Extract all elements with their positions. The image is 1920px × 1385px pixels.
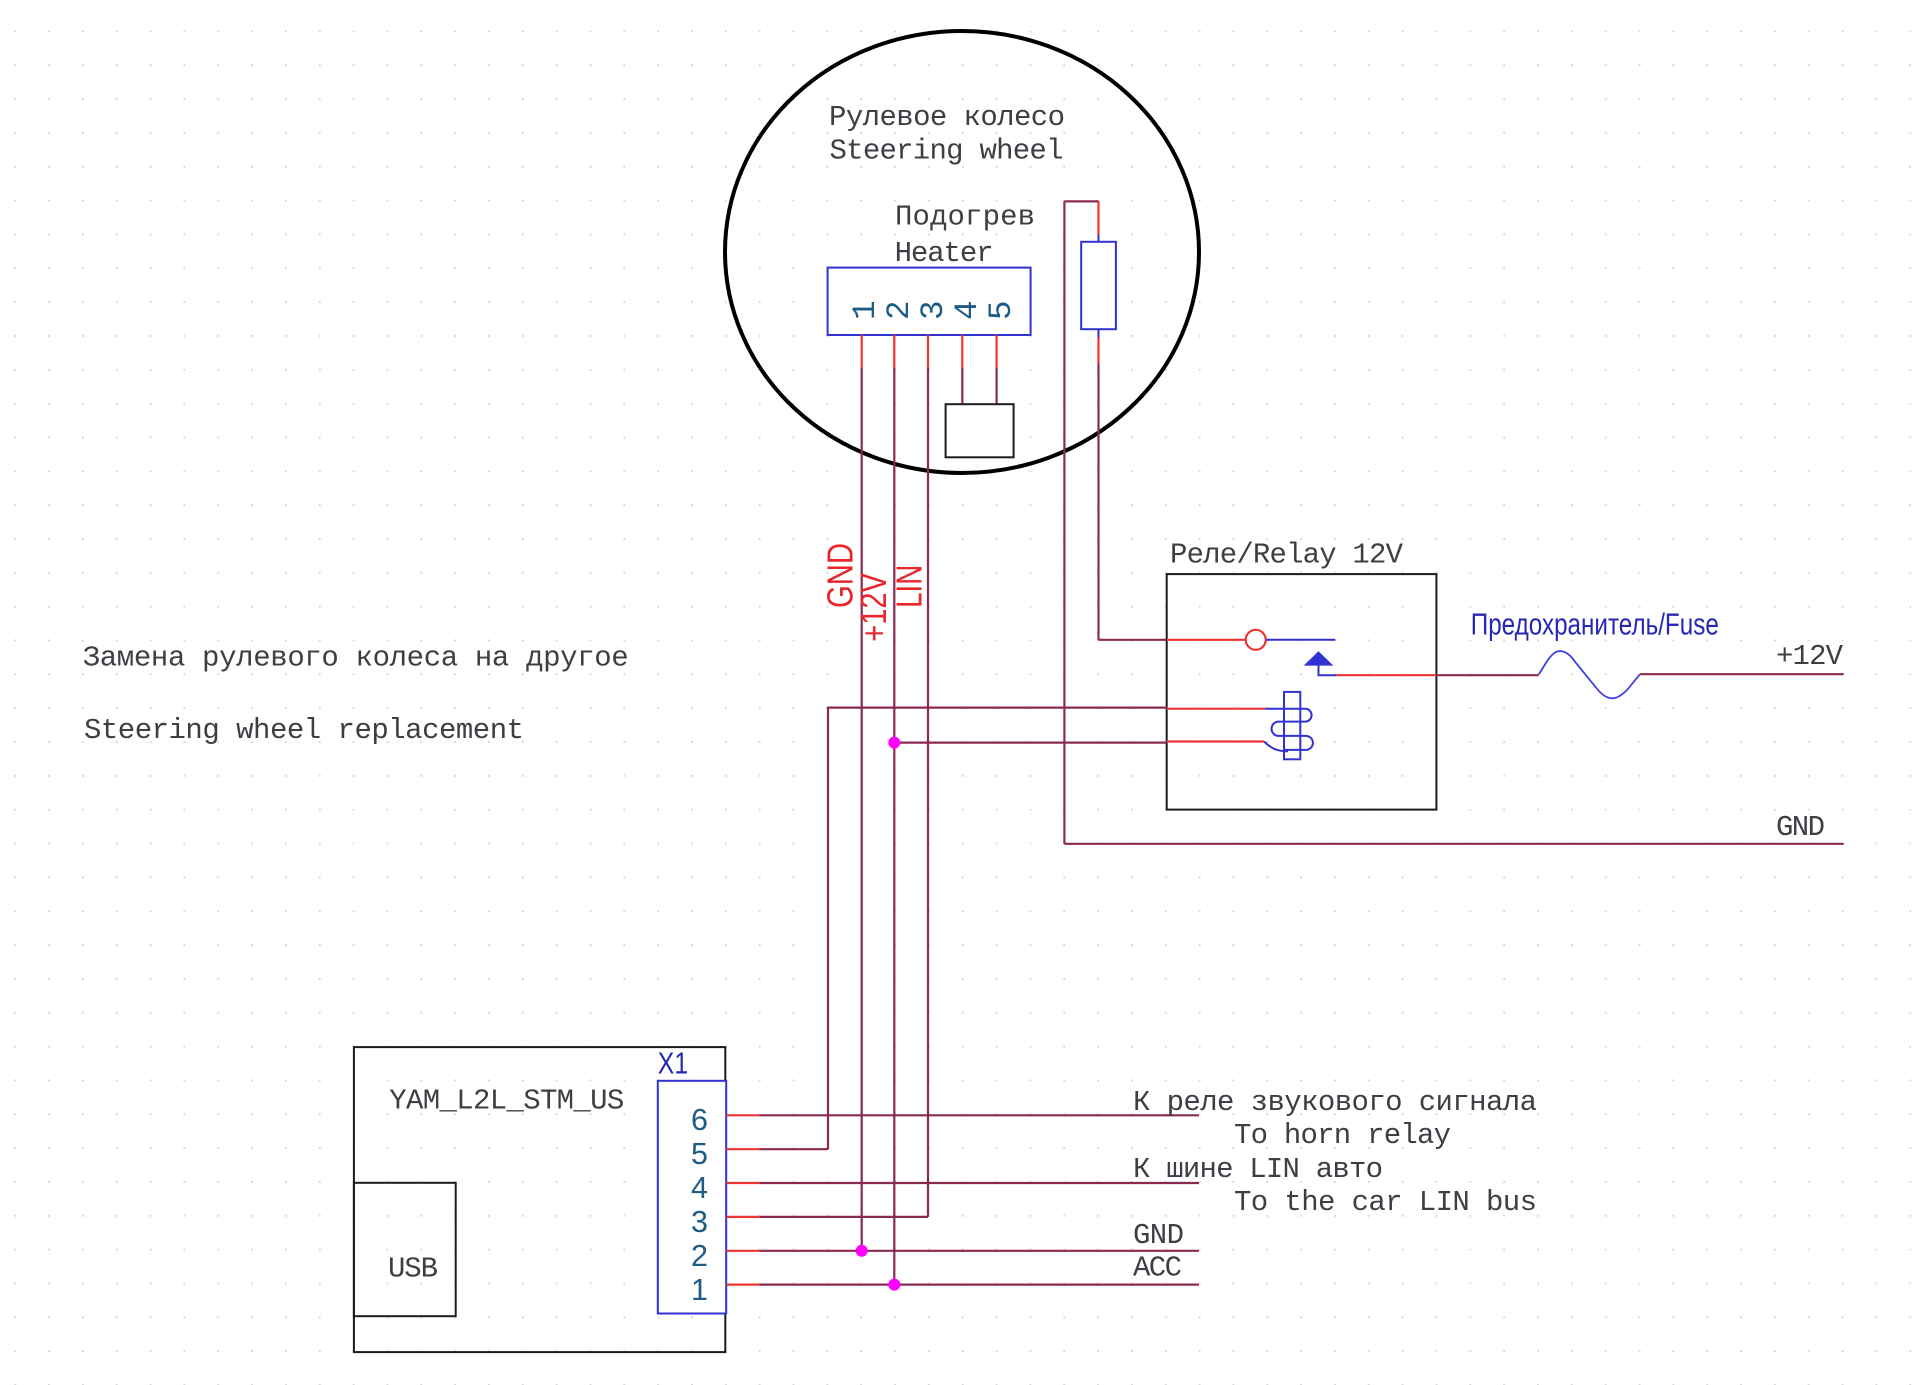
- wire: heater pin5 to connector block: [995, 368, 997, 404]
- svg-text:Steering wheel replacement: Steering wheel replacement: [84, 714, 524, 747]
- wire: red feed to relay contact: [1167, 639, 1246, 641]
- svg-text:5: 5: [983, 300, 1020, 320]
- svg-text:4: 4: [949, 300, 986, 320]
- X1 pin6 red stub: [727, 1114, 761, 1116]
- svg-text:Предохранитель/Fuse: Предохранитель/Fuse: [1471, 607, 1719, 642]
- heater resistor R top wire (red + blue): [1097, 201, 1099, 234]
- X1 pin5 red stub: [727, 1148, 761, 1150]
- svg-text:+12V: +12V: [1776, 640, 1844, 673]
- wire: fuse to +12V terminal: [1640, 673, 1844, 675]
- svg-text:Heater: Heater: [895, 237, 994, 270]
- relay coil bottom diagonal link: [1264, 742, 1288, 752]
- X1 pin1 red stub: [727, 1283, 761, 1285]
- svg-text:YAM_L2L_STM_US: YAM_L2L_STM_US: [389, 1084, 624, 1117]
- svg-text:Подогрев: Подогрев: [895, 201, 1035, 234]
- svg-text:3: 3: [691, 1205, 708, 1239]
- wire: heater pin1 red stub: [861, 335, 863, 368]
- wire: heater pin4 to connector block: [961, 368, 963, 404]
- wire: GND horizontal rail: [1064, 843, 1843, 845]
- svg-text:К шине LIN авто: К шине LIN авто: [1133, 1153, 1383, 1186]
- USB box: [354, 1183, 456, 1316]
- X1 pin3 red stub: [727, 1216, 761, 1218]
- X1 pin2 red stub: [727, 1250, 761, 1252]
- svg-text:1: 1: [691, 1273, 708, 1307]
- YAM_L2L_STM_US box: [354, 1047, 725, 1352]
- relay coil windings: [1265, 709, 1313, 750]
- wire: resistor bottom down to relay contact level: [1097, 364, 1099, 640]
- svg-text:To horn relay: To horn relay: [1234, 1119, 1451, 1152]
- wire: GND drop from resistor loop down left side: [1063, 201, 1065, 843]
- label: Подогрев / Heater: [895, 201, 1035, 270]
- connector block box inside wheel: [946, 404, 1014, 457]
- svg-text:GND: GND: [1776, 811, 1825, 844]
- wire: pin4 to LIN bus label: [760, 1182, 1199, 1184]
- junction dot GND: [856, 1245, 868, 1257]
- svg-text:GND: GND: [1133, 1219, 1184, 1252]
- relay switch blade (blue): [1266, 639, 1335, 641]
- wire: GND vertical from heater pin1: [861, 368, 863, 1251]
- wire: pin2 GND line: [760, 1250, 1199, 1252]
- svg-text:Рулевое колесо: Рулевое колесо: [829, 101, 1065, 134]
- heater resistor bottom wire (blue + red): [1098, 329, 1100, 337]
- svg-text:1: 1: [847, 300, 884, 320]
- svg-text:4: 4: [691, 1171, 708, 1205]
- wire: pin5 to riser corner: [760, 1148, 828, 1150]
- wire: heater pin4 red stub: [961, 335, 963, 368]
- relay contact circle: [1246, 630, 1266, 650]
- relay box: [1167, 574, 1437, 810]
- svg-text:Замена рулевого колеса на друг: Замена рулевого колеса на другое: [83, 642, 629, 675]
- svg-text:5: 5: [691, 1137, 708, 1171]
- svg-text:To the car LIN bus: To the car LIN bus: [1234, 1186, 1537, 1219]
- svg-text:ACC: ACC: [1133, 1252, 1182, 1285]
- wire: pin3 to LIN riser: [760, 1216, 928, 1218]
- svg-text:2: 2: [881, 300, 918, 320]
- X1 pin4 red stub: [727, 1182, 761, 1184]
- junction dot ACC: [888, 1279, 900, 1291]
- wire: relay out to fuse (maroon): [1436, 674, 1538, 676]
- heater resistor body: [1081, 242, 1116, 329]
- wire: pin5 riser to relay coil top: [828, 708, 1167, 1150]
- wire: resistor top loop horizontal: [1064, 200, 1098, 202]
- wire: LIN vertical from heater pin3: [927, 368, 929, 1217]
- junction dot on +12V wire: [888, 737, 900, 749]
- relay switch arrow tail: [1319, 665, 1337, 675]
- svg-text:LIN: LIN: [889, 565, 930, 608]
- wire: pin1 ACC line: [760, 1283, 1199, 1285]
- svg-text:К реле звукового сигнала: К реле звукового сигнала: [1133, 1086, 1537, 1119]
- svg-text:2: 2: [691, 1239, 708, 1273]
- X1 connector box (blue): [658, 1081, 726, 1314]
- wire: +12V junction to relay coil bottom: [894, 741, 1166, 743]
- svg-text:3: 3: [915, 300, 952, 320]
- relay coil core rectangle: [1284, 692, 1300, 759]
- heater connector box: [828, 268, 1031, 335]
- relay coil bottom terminal (red): [1167, 740, 1264, 742]
- wire: heater pin3 red stub: [927, 335, 929, 368]
- wire: heater pin2 red stub: [893, 335, 895, 368]
- svg-text:USB: USB: [388, 1252, 438, 1285]
- label: Рулевое колесо / Steering wheel: [829, 101, 1065, 168]
- wire: heater pin5 red stub: [995, 335, 997, 368]
- svg-text:6: 6: [691, 1103, 708, 1137]
- wire: +12V vertical from heater pin2: [893, 368, 895, 1285]
- wire: to relay contact horizontal: [1099, 639, 1167, 641]
- steering wheel circle: [725, 31, 1199, 473]
- wire: pin6 to horn relay: [760, 1114, 1199, 1116]
- fuse squiggle: [1539, 651, 1640, 698]
- svg-text:Реле/Relay 12V: Реле/Relay 12V: [1170, 539, 1404, 572]
- wire: relay common out (red): [1336, 674, 1436, 676]
- svg-text:X1: X1: [658, 1047, 688, 1081]
- svg-text:Steering wheel: Steering wheel: [830, 135, 1064, 168]
- relay coil top terminal (red): [1167, 708, 1265, 710]
- relay switch arrow: [1305, 652, 1332, 665]
